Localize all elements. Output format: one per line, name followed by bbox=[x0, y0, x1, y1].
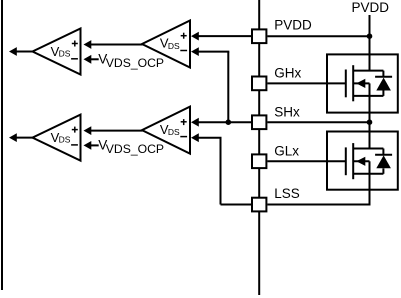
wire: PVDD pad to PVDD rail bbox=[267, 35, 369, 37]
wire: output arrow of U3 bbox=[9, 133, 33, 142]
op-amp U3 (bottom-left VDS comparator) bbox=[33, 115, 81, 161]
wire: U2 output to U1 + input bbox=[84, 40, 143, 49]
svg-text:DS: DS bbox=[59, 49, 71, 59]
wire: bus vertical line bbox=[258, 0, 260, 295]
op-amp U1 (top-left VDS comparator) bbox=[33, 29, 81, 75]
wire: U4 - input to LSS net bbox=[191, 133, 222, 204]
wire: GHx pad to Q1 gate bbox=[267, 82, 345, 84]
wire: Q2 source down to LSS wire bbox=[369, 190, 371, 205]
transistor Q1 (high-side MOSFET with body diode) bbox=[327, 54, 398, 122]
wire: U4 output to U3 + input bbox=[84, 126, 143, 135]
pad GLx bbox=[252, 154, 266, 168]
svg-text:PVDD: PVDD bbox=[352, 0, 390, 15]
pad SHx bbox=[252, 115, 266, 129]
svg-text:VDS_OCP: VDS_OCP bbox=[106, 56, 164, 70]
svg-text:DS: DS bbox=[168, 127, 180, 137]
pad GHx bbox=[252, 77, 266, 91]
wire: PVDD vertical down to Q1 drain bbox=[369, 15, 371, 71]
svg-text:SHx: SHx bbox=[274, 104, 300, 119]
wire: GLx pad to Q2 gate bbox=[267, 160, 346, 162]
op-amp U2 (top-middle VDS comparator) bbox=[142, 21, 190, 68]
wire: output arrow of U1 bbox=[9, 47, 33, 56]
wire: left vertical rail bbox=[1, 0, 3, 290]
pad LSS bbox=[252, 198, 266, 212]
svg-text:DS: DS bbox=[59, 135, 71, 145]
wire: LSS pad to Q2 source bbox=[267, 204, 370, 206]
svg-text:DS: DS bbox=[168, 41, 180, 51]
pad PVDD bbox=[252, 29, 266, 43]
wire: SHx pad to Q1 source / Q2 drain bbox=[267, 121, 369, 123]
wire: VVDS_OCP arrow into U3 - input bbox=[84, 141, 99, 150]
wire: VVDS_OCP arrow into U1 - input bbox=[84, 55, 99, 64]
svg-text:VDS_OCP: VDS_OCP bbox=[106, 142, 164, 156]
transistor Q2 (low-side MOSFET with body diode) bbox=[327, 122, 398, 190]
wire: PVDD pad to U2 + input bbox=[191, 32, 251, 41]
node: PVDD junction dot bbox=[367, 33, 373, 39]
wire: U2 - input to SHx net bbox=[191, 47, 229, 122]
node: SHx junction dot bbox=[367, 119, 373, 125]
wire: LSS net left segment bbox=[221, 204, 252, 206]
text: VVDS_OCP (bottom) bbox=[98, 138, 164, 156]
svg-text:PVDD: PVDD bbox=[274, 18, 312, 33]
wire: SHx pad to U4 + input bbox=[191, 118, 251, 127]
text: VVDS_OCP (top) bbox=[98, 52, 164, 70]
svg-text:LSS: LSS bbox=[274, 186, 300, 201]
node: junction dot on SHx net bbox=[226, 119, 232, 125]
op-amp U4 (bottom-middle VDS comparator) bbox=[142, 107, 190, 154]
svg-text:GHx: GHx bbox=[274, 66, 301, 81]
svg-text:GLx: GLx bbox=[274, 143, 299, 158]
